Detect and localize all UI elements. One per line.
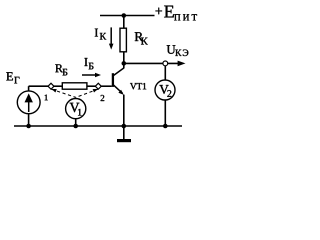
label I (IБ) bbox=[84, 58, 87, 66]
wire EG to node 1 bbox=[29, 85, 49, 87]
label Б subscript (IБ) bbox=[89, 63, 94, 70]
label Б subscript (RБ) bbox=[63, 69, 68, 76]
node UKE open bbox=[163, 61, 168, 66]
voltmeter V2 bbox=[155, 80, 175, 100]
wire UKE horizontal bbox=[124, 62, 182, 64]
wire node1 to RB bbox=[54, 85, 63, 87]
ground bbox=[117, 139, 131, 142]
label V (V1) bbox=[70, 103, 80, 112]
node 1 terminal bbox=[48, 83, 54, 89]
junction V2 bottom bbox=[163, 124, 168, 129]
label R (RБ) bbox=[55, 64, 63, 72]
label + bbox=[156, 8, 163, 15]
label V (V2) bbox=[159, 85, 168, 94]
current source EG bbox=[17, 91, 40, 114]
label R (RК) bbox=[135, 32, 143, 41]
wire collector rail top bbox=[123, 16, 125, 29]
wire resistor RK to node bbox=[123, 52, 125, 64]
arrow UKE bbox=[178, 61, 186, 67]
wire emitter vertical bbox=[123, 95, 125, 126]
transistor VT1 bbox=[113, 68, 124, 95]
label node 1 bbox=[45, 95, 48, 101]
label К subscript (RК) bbox=[141, 38, 148, 45]
dashed probe line node2 to V1 bbox=[76, 89, 98, 97]
wire EG top vertical bbox=[28, 86, 30, 91]
label 1 subscript (V1) bbox=[78, 109, 82, 116]
wire V2 drop lower bbox=[164, 100, 166, 126]
wire base bbox=[101, 85, 112, 87]
resistor RB bbox=[62, 83, 87, 89]
dashed probe line node1 to V1 bbox=[52, 89, 76, 97]
voltmeter V1 bbox=[66, 99, 86, 119]
label 2 subscript (V2) bbox=[167, 90, 171, 97]
label E (supply) bbox=[164, 6, 174, 18]
label КЭ subscript bbox=[175, 50, 188, 56]
label Г subscript bbox=[14, 77, 19, 84]
wire V1 drop bbox=[75, 119, 77, 126]
wire V2 drop upper bbox=[164, 66, 166, 80]
label node 2 bbox=[101, 95, 105, 101]
junction collector bbox=[122, 61, 127, 66]
wire collector stub bbox=[123, 63, 125, 68]
wire top rail bbox=[100, 15, 155, 17]
label VT1 bbox=[130, 83, 146, 89]
label К subscript (IК) bbox=[100, 33, 106, 40]
junction emitter bottom bbox=[122, 124, 127, 129]
wire RB to node2 bbox=[87, 85, 96, 87]
arrow IB bbox=[82, 74, 97, 76]
junction top bbox=[122, 13, 127, 18]
wire bottom rail bbox=[14, 125, 182, 127]
label ПИТ subscript bbox=[174, 14, 197, 20]
resistor RK bbox=[120, 28, 126, 52]
wire EG bottom vertical bbox=[28, 114, 30, 127]
label I (IК) bbox=[95, 29, 98, 37]
arrow IK bbox=[110, 27, 112, 44]
wire ground stub bbox=[123, 126, 125, 139]
junction EG bottom bbox=[26, 124, 31, 129]
label U (UКЭ) bbox=[167, 45, 176, 54]
junction V1 bottom bbox=[73, 124, 78, 129]
label E (EГ) bbox=[6, 72, 13, 80]
node 2 terminal bbox=[95, 83, 101, 89]
